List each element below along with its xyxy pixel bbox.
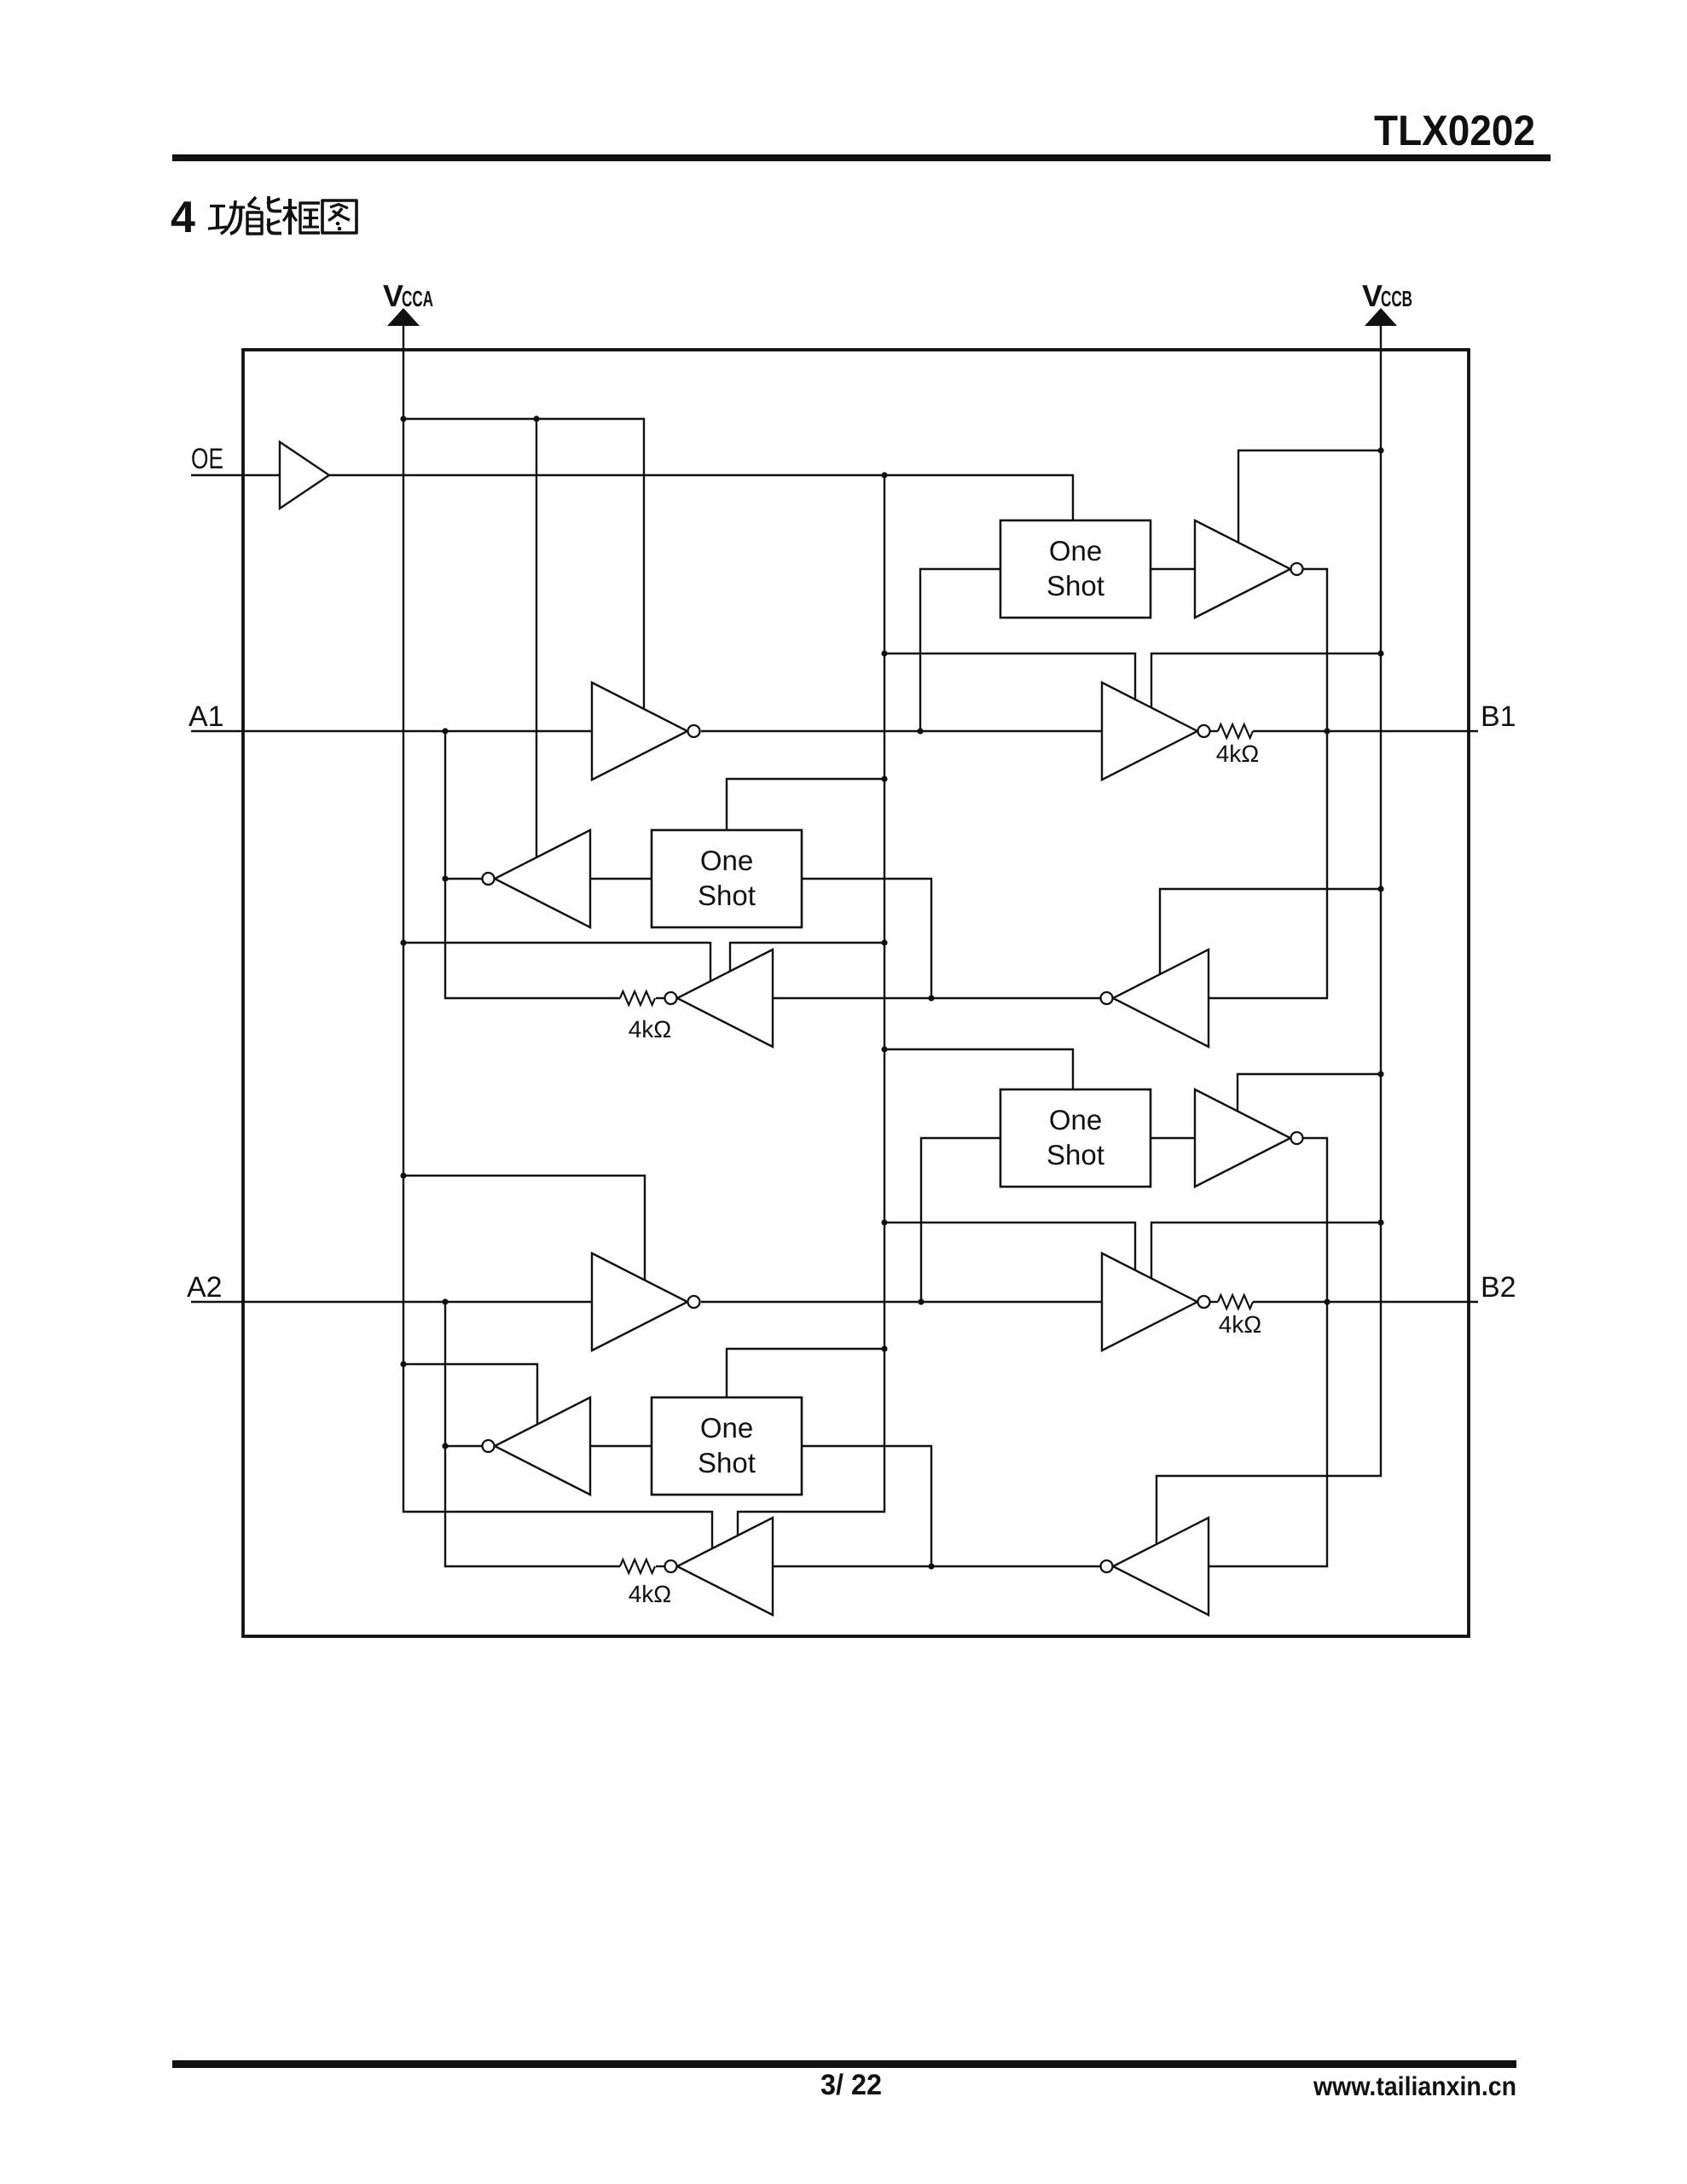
svg-text:B2: B2: [1481, 1271, 1516, 1304]
svg-text:OE: OE: [191, 443, 223, 475]
svg-text:3/ 22: 3/ 22: [820, 2069, 882, 2101]
svg-text:One: One: [1049, 535, 1102, 566]
svg-text:V: V: [1362, 278, 1383, 313]
svg-text:A1: A1: [188, 700, 224, 733]
svg-text:4: 4: [171, 193, 195, 242]
svg-text:www.tailianxin.cn: www.tailianxin.cn: [1313, 2071, 1516, 2101]
svg-text:4kΩ: 4kΩ: [629, 1016, 672, 1043]
svg-text:4kΩ: 4kΩ: [1216, 741, 1260, 767]
svg-text:CCB: CCB: [1381, 286, 1412, 311]
svg-text:CCA: CCA: [402, 286, 433, 311]
svg-text:A2: A2: [187, 1271, 223, 1304]
svg-text:Shot: Shot: [698, 1447, 756, 1478]
svg-text:B1: B1: [1481, 700, 1516, 733]
svg-text:4kΩ: 4kΩ: [629, 1581, 672, 1607]
svg-text:Shot: Shot: [1046, 1139, 1104, 1170]
svg-text:Shot: Shot: [698, 880, 756, 911]
svg-text:4kΩ: 4kΩ: [1219, 1311, 1262, 1338]
svg-text:One: One: [700, 1412, 753, 1443]
svg-text:V: V: [383, 278, 403, 313]
svg-text:One: One: [1049, 1104, 1102, 1136]
svg-text:One: One: [700, 845, 753, 876]
svg-text:TLX0202: TLX0202: [1374, 107, 1535, 154]
svg-text:Shot: Shot: [1046, 570, 1104, 601]
